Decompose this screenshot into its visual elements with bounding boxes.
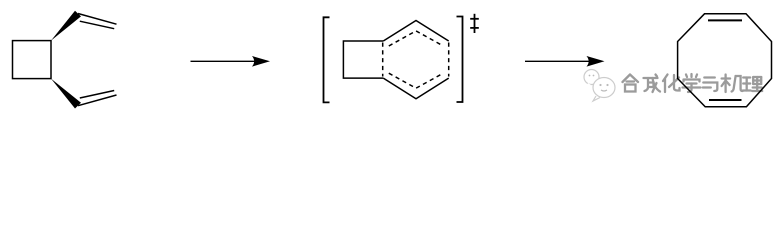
partial double bond dashes top bbox=[389, 31, 444, 46]
arrow 2 bbox=[525, 56, 605, 67]
wedge bond top bbox=[51, 11, 81, 41]
cyclobutane part (3 solid sides) bbox=[343, 41, 383, 78]
watermark logo bbox=[584, 70, 615, 102]
double bond bottom inner bbox=[709, 99, 742, 101]
vinyl double bond top bbox=[78, 14, 117, 25]
transition state molecule bbox=[343, 21, 448, 99]
right bracket bbox=[457, 17, 463, 103]
double dagger bbox=[470, 14, 479, 33]
wedge bond bottom bbox=[51, 79, 81, 109]
forming bond (dashed right edge) bbox=[448, 43, 450, 77]
vinyl double bond bottom bbox=[78, 95, 117, 106]
double bond top inner bbox=[708, 19, 742, 21]
octagon ring bbox=[678, 14, 772, 107]
arrow 1 bbox=[191, 56, 271, 67]
molecule 3: 1,5-cyclooctadiene bbox=[678, 14, 772, 107]
cyclobutane ring bbox=[13, 41, 52, 79]
partial double bond dashes bottom bbox=[389, 73, 444, 88]
hexagon solid bottom bbox=[383, 78, 448, 99]
molecule 1: cis-1,2-divinylcyclobutane bbox=[13, 11, 117, 109]
left bracket bbox=[324, 17, 330, 102]
breaking fusion bond (dashed) bbox=[382, 43, 384, 77]
hexagon solid top bbox=[383, 21, 448, 42]
